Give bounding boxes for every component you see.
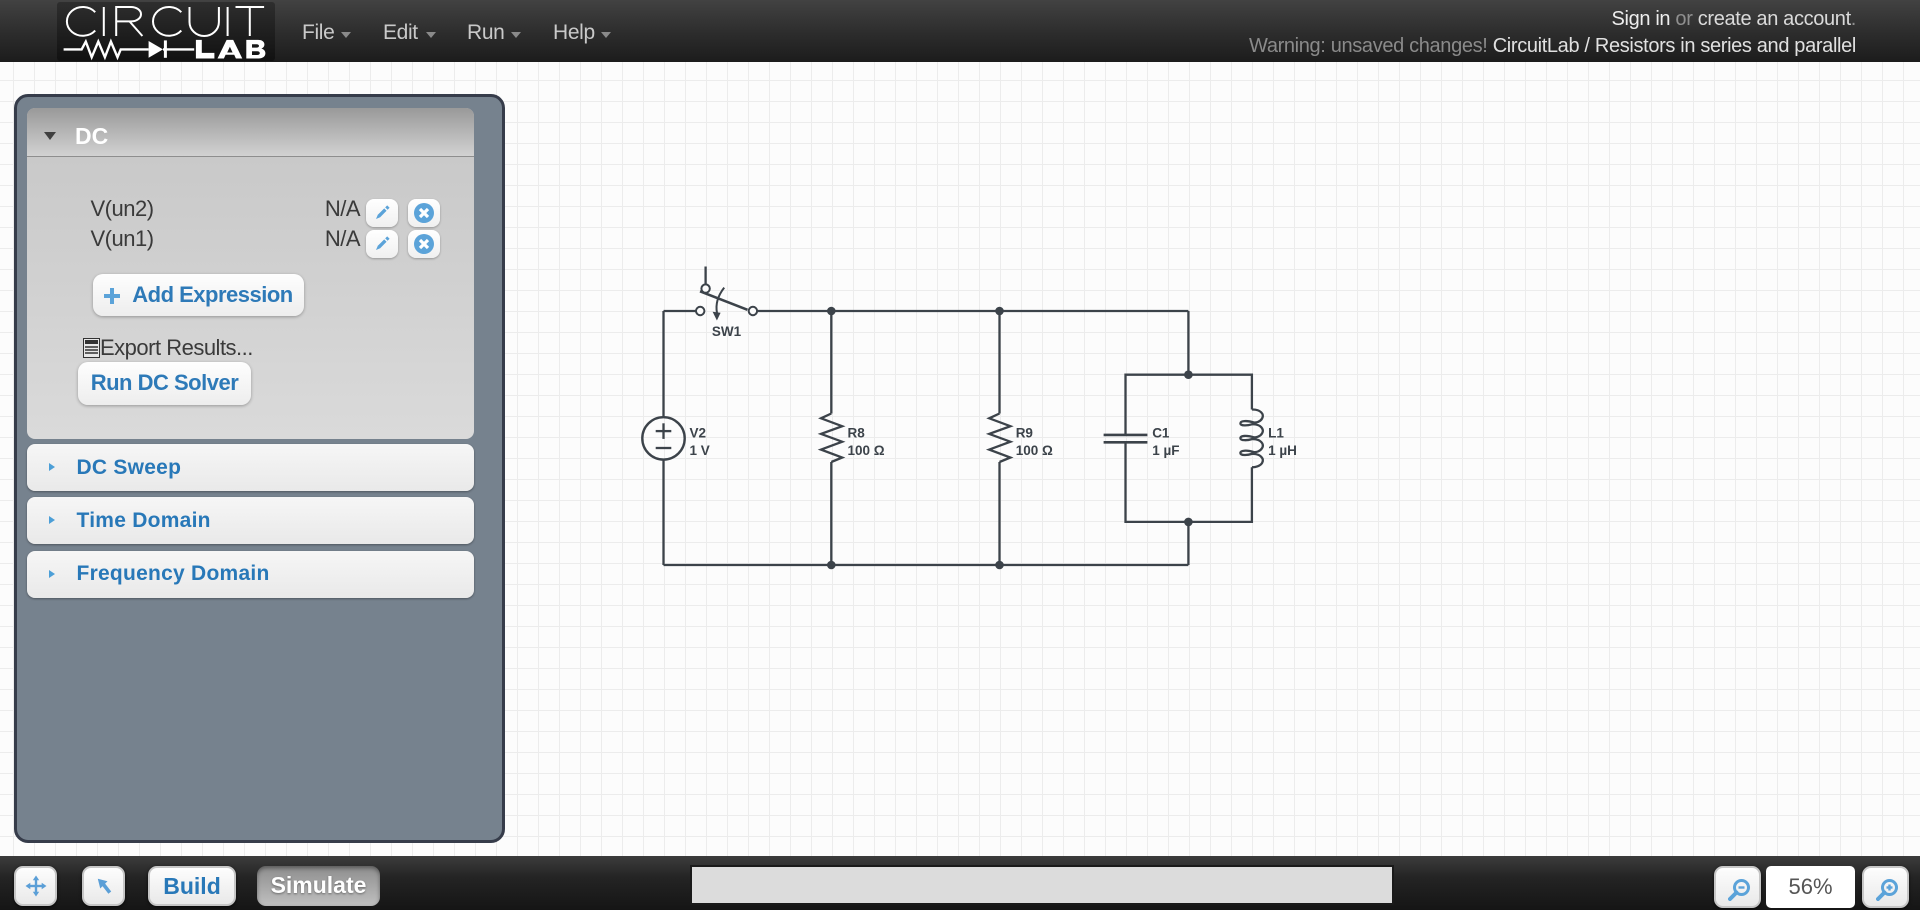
top bar xyxy=(0,0,1920,62)
svg-text:R8: R8 xyxy=(848,425,866,440)
svg-text:1 V: 1 V xyxy=(690,443,710,458)
wire LC box bottom edge xyxy=(1126,442,1252,522)
wire left vertical lower (V2 bottom) xyxy=(662,460,664,565)
switch SW1 top terminal circle xyxy=(701,284,709,292)
voltage source V2 circle xyxy=(642,417,684,459)
svg-text:SW1: SW1 xyxy=(712,324,742,339)
capacitor C1 plates xyxy=(1104,434,1148,437)
svg-text:V2: V2 xyxy=(690,425,707,440)
svg-text:L1: L1 xyxy=(1268,425,1284,440)
junction dot R9 bottom xyxy=(995,561,1004,570)
junction dot R9 top xyxy=(995,307,1004,316)
wire LC feed top xyxy=(1187,311,1189,375)
logo resistor + diode xyxy=(64,40,195,57)
svg-text:C1: C1 xyxy=(1152,425,1170,440)
inductor L1 coil xyxy=(1240,409,1262,467)
switch SW1 lever xyxy=(700,291,748,310)
junction dot LC top xyxy=(1184,370,1193,379)
resistor R9 zigzag xyxy=(989,414,1010,463)
resistor R8 zigzag xyxy=(821,414,842,463)
switch SW1 stub xyxy=(704,267,706,285)
bottom bar xyxy=(0,856,1920,910)
switch SW1 right terminal circle xyxy=(749,307,757,315)
wire LC box top edge xyxy=(1126,375,1252,435)
left simulation panel xyxy=(14,94,505,843)
junction dot R8 top xyxy=(827,307,836,316)
wire left vertical upper (V2 top) xyxy=(662,311,664,417)
wire R8 bottom xyxy=(830,462,832,565)
wire R8 top xyxy=(830,311,832,414)
logo LAB letters xyxy=(196,40,266,59)
wire top-left from V2 to switch xyxy=(664,310,697,312)
V2 minus sign xyxy=(656,447,672,449)
svg-text:1 µH: 1 µH xyxy=(1268,443,1297,458)
switch SW1 arc xyxy=(716,288,724,313)
V2 plus sign xyxy=(656,430,672,432)
logo CIRCUIT outline letters xyxy=(67,7,264,36)
wire bottom xyxy=(664,564,1189,566)
svg-text:1 µF: 1 µF xyxy=(1152,443,1179,458)
wire LC feed bottom xyxy=(1187,522,1189,565)
junction dot R8 bottom xyxy=(827,561,836,570)
svg-text:100 Ω: 100 Ω xyxy=(848,443,885,458)
switch SW1 arrowhead xyxy=(713,312,721,321)
wire R9 bottom xyxy=(998,462,1000,565)
svg-text:100 Ω: 100 Ω xyxy=(1016,443,1053,458)
junction dot LC bottom xyxy=(1184,518,1193,527)
wire R9 top xyxy=(998,311,1000,414)
svg-text:R9: R9 xyxy=(1016,425,1033,440)
wire top from switch to LC feed xyxy=(757,310,1188,312)
switch SW1 left terminal circle xyxy=(696,307,704,315)
